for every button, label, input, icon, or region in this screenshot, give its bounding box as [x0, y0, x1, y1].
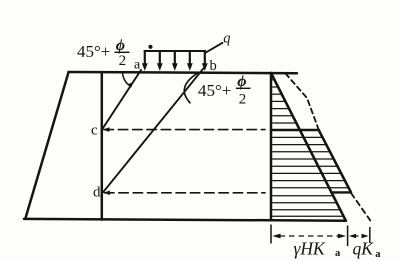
arrowhead at d	[103, 191, 110, 196]
angle arc at a	[123, 73, 131, 86]
rupture line b-d	[103, 68, 204, 193]
ground bottom line	[24, 219, 346, 221]
arrowhead at c	[103, 127, 110, 132]
label 45+phi/2 left	[77, 37, 130, 69]
load arrow 4	[189, 51, 191, 65]
pressure step at depth d	[331, 191, 351, 193]
dimension ticks and arrows	[271, 225, 370, 247]
svg-text:ϕ: ϕ	[116, 37, 125, 54]
surcharge load top line	[145, 50, 206, 52]
dashed surcharge slant upper	[286, 74, 319, 130]
dimension tick right	[369, 227, 371, 243]
svg-text:q: q	[223, 31, 230, 47]
rupture line a-c	[103, 70, 142, 129]
embankment left slope	[25, 72, 68, 219]
dashed level line from d	[105, 192, 266, 194]
svg-text:γHK: γHK	[294, 239, 327, 259]
pressure step at depth c	[272, 129, 319, 132]
load arrow 1	[144, 51, 146, 65]
dim arrowhead left-left	[272, 234, 280, 239]
dim arrowhead right-left	[349, 234, 356, 238]
dimension line gamma-H-Ka	[280, 235, 340, 237]
svg-text:c: c	[91, 122, 98, 138]
dimension tick left	[270, 225, 272, 244]
label qKa	[353, 239, 382, 261]
dimension tick middle	[347, 226, 349, 247]
svg-text:b: b	[210, 58, 217, 74]
label gamma-H-Ka	[294, 239, 342, 260]
dim arrowhead left-right	[338, 234, 346, 239]
label 45+phi/2 right	[198, 73, 251, 108]
wall back vertical line	[101, 72, 104, 219]
svg-text:45°+: 45°+	[77, 42, 110, 61]
svg-text:a: a	[335, 248, 341, 259]
svg-text:ϕ: ϕ	[237, 73, 246, 90]
dashed level line from c	[104, 129, 265, 131]
svg-text:2: 2	[119, 53, 127, 69]
dimension line qKa	[355, 235, 364, 237]
pressure ordinate vertical line	[270, 73, 273, 220]
svg-text:45°+: 45°+	[198, 81, 231, 100]
load arrow 2	[159, 51, 161, 65]
dim arrowhead right-right	[362, 234, 369, 238]
load arrow 3	[174, 51, 176, 65]
svg-text:a: a	[134, 58, 141, 73]
ink dot above load line	[148, 45, 152, 49]
arc arrowhead at a	[128, 83, 133, 88]
pressure slant line 1 (gamma-H-Ka)	[271, 73, 346, 221]
load arrow 5	[204, 51, 206, 65]
angle arc at b	[184, 73, 198, 103]
embankment top edge	[69, 72, 298, 73]
svg-text:d: d	[93, 184, 101, 200]
svg-text:2: 2	[239, 92, 247, 108]
pressure slant line 2 (with surcharge)	[319, 130, 351, 193]
svg-text:qK: qK	[353, 239, 375, 259]
q leader line	[205, 43, 222, 53]
hatch lines	[272, 80, 348, 216]
svg-text:a: a	[375, 249, 381, 260]
dashed surcharge slant lower	[351, 193, 370, 221]
